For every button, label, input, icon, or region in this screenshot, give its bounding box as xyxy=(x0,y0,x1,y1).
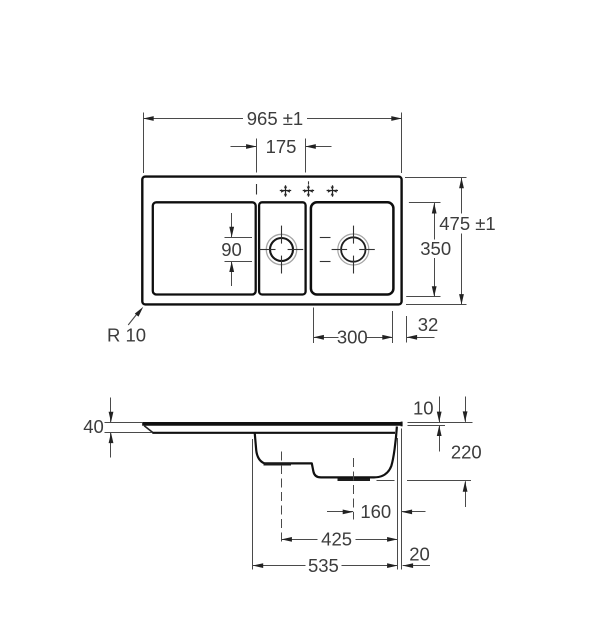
crosshair bowl 2 drain xyxy=(332,226,375,274)
bowl 2 (top view) xyxy=(311,202,394,294)
svg-text:175: 175 xyxy=(266,136,297,157)
dimension 425 arrowheads xyxy=(281,537,397,542)
dimension 10 arrowheads xyxy=(437,412,442,436)
svg-text:425: 425 xyxy=(321,529,352,550)
dimension 160 arrowheads xyxy=(343,510,412,515)
dimension 175 extension lines xyxy=(257,139,306,173)
dimension 220 arrowheads xyxy=(463,411,468,491)
dimension 300 arrowheads xyxy=(313,335,392,340)
dimension 32 extension line xyxy=(406,316,408,343)
dimension 220 arrow lines xyxy=(465,397,467,508)
drainboard basin (top view) xyxy=(153,202,256,294)
crosshair bowl 1 drain xyxy=(260,226,304,274)
dimension 350 line xyxy=(434,203,436,297)
side view shallow bowl drain recess xyxy=(264,463,292,465)
sink outer rim (top view) xyxy=(142,177,401,305)
deep bowl centerline (dashed) xyxy=(353,458,355,520)
svg-text:535: 535 xyxy=(308,555,339,576)
dimension 10 extension lines xyxy=(408,423,473,426)
tap hole marker 2 xyxy=(303,185,314,196)
dimension 40 arrow lines xyxy=(110,398,112,458)
bowl left extension line xyxy=(252,439,254,570)
svg-text:220: 220 xyxy=(451,442,482,463)
svg-text:40: 40 xyxy=(83,416,104,437)
R 10 leader arrowhead xyxy=(135,307,143,317)
svg-text:300: 300 xyxy=(337,327,368,348)
svg-text:160: 160 xyxy=(360,501,391,522)
side view rim right end cap xyxy=(401,422,403,427)
dimension 32 arrow line xyxy=(407,337,435,339)
dimension 160 arrow lines xyxy=(327,511,426,513)
centerline dash above tap marker 2 xyxy=(308,181,310,184)
svg-text:10: 10 xyxy=(413,398,434,419)
side view bowl profile xyxy=(255,427,397,478)
svg-text:965 ±1: 965 ±1 xyxy=(247,108,303,129)
dimension 475 ±1 extension lines xyxy=(405,178,467,305)
dimension 965 ±1 extension lines xyxy=(144,113,402,174)
bowl 1 (top view) xyxy=(259,202,306,294)
right wall outer extension line xyxy=(401,429,403,570)
right wall inner extension line xyxy=(397,438,399,570)
dimension 475 ±1 line xyxy=(461,178,463,305)
dimension 175 arrowheads xyxy=(246,144,316,149)
dimension 10 arrow lines xyxy=(439,397,441,452)
svg-text:32: 32 xyxy=(418,314,439,335)
dimension 32 arrowhead xyxy=(407,335,418,340)
dimension 90 arrowheads xyxy=(229,227,234,272)
depth 220 bottom extension line xyxy=(377,480,472,482)
svg-text:90: 90 xyxy=(221,239,242,260)
bowl2 drain reference dash lower xyxy=(320,261,331,263)
centerline dash below 175 left extension xyxy=(256,184,258,195)
side view drain recess xyxy=(338,479,371,482)
dimension 425 line xyxy=(281,539,397,541)
dimension 350 extension lines xyxy=(406,203,440,297)
tap hole marker 3 xyxy=(327,185,338,196)
dimension 475 ±1 arrowheads xyxy=(459,178,464,305)
R 10 leader line xyxy=(128,315,136,326)
shallow bowl centerline (dashed) xyxy=(281,452,283,546)
tap hole marker 1 xyxy=(280,185,291,196)
dimension 20 arrow line xyxy=(403,565,430,567)
svg-text:350: 350 xyxy=(420,238,451,259)
dimension 40 extension lines xyxy=(105,423,153,433)
dimension 90 extension lines xyxy=(225,238,253,262)
dimension 175 arrow lines xyxy=(231,146,332,148)
dimension 350 arrowheads xyxy=(432,203,437,297)
side view rim top surface band xyxy=(142,422,402,426)
dimension 535 arrowheads xyxy=(253,563,398,568)
drain circle bowl 1 outer xyxy=(266,234,296,264)
bowl2 drain reference dash upper xyxy=(320,237,331,239)
svg-text:R 10: R 10 xyxy=(107,325,146,346)
svg-text:20: 20 xyxy=(409,544,430,565)
side view front bevel xyxy=(144,426,152,433)
dimension 300 line xyxy=(313,337,392,339)
dimension 20 arrowhead xyxy=(403,563,414,568)
dimension 90 arrow lines xyxy=(231,213,233,286)
dimension 535 line xyxy=(253,565,398,567)
dimension 300 extension lines xyxy=(314,308,393,344)
dimension 965 ±1 arrowheads xyxy=(143,116,402,121)
drain circle bowl 1 inner xyxy=(270,238,293,261)
dimension 40 arrowheads xyxy=(109,412,114,443)
side view rim underside line xyxy=(152,432,395,434)
drain circle bowl 2 outer xyxy=(338,234,369,265)
dimension 965 ±1 line xyxy=(143,118,402,120)
svg-text:475 ±1: 475 ±1 xyxy=(439,213,495,234)
drain circle bowl 2 inner xyxy=(341,237,365,261)
